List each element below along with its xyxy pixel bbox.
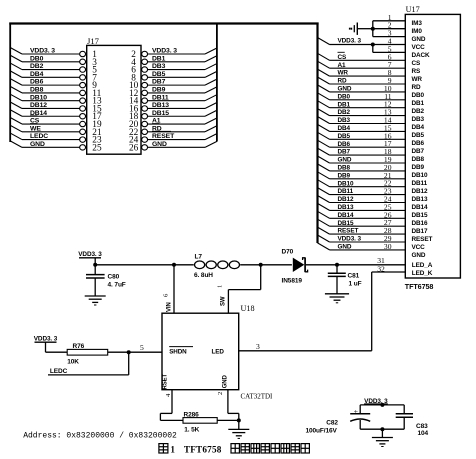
- junction: U18 VIN node: [172, 263, 176, 267]
- svg-text:VCC: VCC: [412, 244, 426, 251]
- svg-text:DB3: DB3: [412, 116, 425, 123]
- wire + power VDD3.3 (U17 pins 4-5): [318, 38, 406, 53]
- wire + net label DB4 (U17 pin 15): [318, 124, 406, 132]
- svg-text:IM0: IM0: [412, 28, 423, 35]
- svg-text:RESET: RESET: [152, 133, 175, 140]
- svg-text:R286: R286: [184, 412, 200, 419]
- svg-text:2: 2: [217, 392, 224, 395]
- svg-text:32: 32: [377, 264, 385, 273]
- svg-text:Address: 0x83200000 / 0x832000: Address: 0x83200000 / 0x83200002: [23, 432, 177, 441]
- svg-text:VDD3. 3: VDD3. 3: [78, 251, 102, 258]
- wire + net label DB0 (J17 pin 3): [10, 55, 85, 64]
- svg-text:DB6: DB6: [338, 141, 351, 148]
- power VDD3.3 (shutdown pull-up): [34, 335, 58, 352]
- svg-text:GND: GND: [338, 244, 352, 251]
- wire + net label DB9 (J17 pin 12): [142, 87, 217, 96]
- svg-text:DB2: DB2: [338, 109, 351, 116]
- wire: U17 pin 32 (LED_K) to U18 LED pin: [239, 264, 406, 350]
- wire + net label RD (J17 pin 22): [142, 124, 217, 135]
- svg-text:DB6: DB6: [412, 140, 425, 147]
- svg-text:D70: D70: [282, 249, 294, 256]
- junction: SHDN node: [127, 350, 131, 354]
- wire + net label RESET (U17 pin 28): [318, 226, 406, 235]
- wire: L7 to D70: [240, 264, 292, 266]
- svg-text:DB2: DB2: [30, 63, 44, 70]
- svg-text:VDD3. 3: VDD3. 3: [34, 335, 58, 342]
- svg-text:DB0: DB0: [412, 92, 425, 99]
- junction: U17 pin 2 node: [371, 27, 375, 31]
- wire + net label GND (U17 pin 10): [318, 85, 406, 93]
- svg-text:TFT6758: TFT6758: [405, 282, 434, 291]
- svg-text:C81: C81: [348, 273, 360, 280]
- svg-text:DB8: DB8: [30, 87, 44, 94]
- svg-text:1: 1: [170, 444, 175, 454]
- wire + net label DB11 (J17 pin 14): [142, 94, 217, 103]
- svg-text:GND: GND: [30, 141, 45, 148]
- svg-text:DB16: DB16: [412, 220, 428, 227]
- capacitor C80 4.7uF: [86, 265, 126, 296]
- wire: U17 pins 1-3 bracket: [358, 21, 405, 37]
- wire + net label RD (U17 pin 9): [318, 76, 406, 85]
- svg-text:DB1: DB1: [152, 55, 166, 62]
- svg-text:R76: R76: [73, 343, 85, 350]
- svg-text:3: 3: [256, 342, 260, 351]
- svg-text:DB3: DB3: [152, 63, 166, 70]
- svg-text:VDD3. 3: VDD3. 3: [338, 38, 362, 45]
- svg-text:DB1: DB1: [412, 100, 425, 107]
- ground (U18/R286): [228, 420, 249, 438]
- wire + net label WR (U17 pin 8): [318, 68, 406, 77]
- ground (C80): [85, 296, 106, 305]
- caption: figure 1 TFT6758 LCD module application circuit: [159, 444, 310, 455]
- svg-text:DB6: DB6: [30, 79, 44, 86]
- svg-text:5: 5: [140, 343, 144, 352]
- svg-text:DB12: DB12: [30, 102, 47, 109]
- junction: U17 pin 4 node: [371, 43, 375, 47]
- wire + net label DB15 (J17 pin 18): [142, 110, 217, 119]
- junction: C81 node: [335, 263, 339, 267]
- svg-text:DB4: DB4: [30, 71, 44, 78]
- net label LEDC wire: [48, 352, 129, 375]
- connector J17 body: [87, 36, 141, 154]
- junction: C80 node: [93, 263, 97, 267]
- wire + net label VDD3.3 (J17 pin 2): [142, 48, 217, 57]
- svg-text:DB15: DB15: [152, 110, 169, 117]
- wire: VDD3.3 to L7: [95, 264, 194, 266]
- svg-text:DB17: DB17: [412, 228, 428, 235]
- wire + net label DB2 (J17 pin 5): [10, 63, 85, 72]
- svg-text:1: 1: [217, 285, 224, 288]
- wire + net label GND (J17 pin 26): [142, 141, 217, 150]
- wire: left vertical bus: [9, 23, 11, 143]
- svg-text:DB12: DB12: [338, 196, 354, 203]
- svg-text:26: 26: [129, 143, 139, 153]
- svg-text:VDD3. 3: VDD3. 3: [338, 236, 362, 243]
- svg-text:CAT32TDI: CAT32TDI: [241, 393, 274, 401]
- wire: C82/C83 bottom rail: [360, 428, 404, 430]
- svg-text:DB5: DB5: [338, 133, 351, 140]
- capacitor C83 104: [396, 405, 429, 437]
- svg-text:LED_K: LED_K: [412, 270, 433, 277]
- svg-text:6: 6: [163, 293, 170, 297]
- junction: bottom rail ground node: [380, 427, 384, 431]
- svg-text:IN5819: IN5819: [282, 278, 303, 285]
- wire + net label DB8 (J17 pin 11): [10, 86, 85, 95]
- wire + net label DB13 (U17 pin 25): [318, 203, 406, 211]
- ground (C81): [325, 294, 349, 303]
- svg-text:4. 7uF: 4. 7uF: [108, 282, 126, 289]
- svg-text:GND: GND: [338, 157, 352, 164]
- svg-text:25: 25: [92, 143, 102, 153]
- svg-text:DB10: DB10: [30, 94, 47, 101]
- svg-text:LEDC: LEDC: [30, 133, 48, 140]
- svg-text:U17: U17: [406, 5, 420, 14]
- svg-text:GND: GND: [223, 374, 229, 388]
- junction: U18 SW node: [259, 263, 263, 267]
- IC U17 body (TFT6758 module): [405, 5, 461, 291]
- svg-text:DB11: DB11: [338, 188, 354, 195]
- wire + net label GND (U17 pin 19): [318, 156, 406, 164]
- svg-text:DB12: DB12: [412, 188, 428, 195]
- svg-text:DB14: DB14: [338, 212, 354, 219]
- svg-text:RSET: RSET: [163, 373, 169, 389]
- svg-text:DB7: DB7: [152, 79, 166, 86]
- svg-text:RD: RD: [338, 78, 348, 85]
- svg-text:100uF/16V: 100uF/16V: [306, 428, 338, 435]
- svg-text:1. 5K: 1. 5K: [184, 427, 199, 434]
- wire + net label GND (U17 pin 30): [318, 243, 406, 251]
- svg-text:DB4: DB4: [338, 125, 351, 132]
- ground (C82/C83): [372, 429, 393, 446]
- wire + net label DB5 (J17 pin 8): [142, 71, 217, 80]
- svg-text:DB11: DB11: [412, 180, 428, 187]
- svg-text:GND: GND: [152, 141, 167, 148]
- svg-text:DB2: DB2: [412, 108, 425, 115]
- wire: J17 right-side vertical bus: [216, 23, 218, 142]
- power VDD3.3 (backlight supply): [78, 251, 102, 265]
- svg-text:RESET: RESET: [412, 236, 433, 243]
- svg-text:DACK: DACK: [412, 52, 431, 59]
- wire + net label VDD3.3 (U17 pin 29): [318, 235, 406, 243]
- wire: U17 left vertical bus: [316, 23, 318, 244]
- svg-text:RESET: RESET: [338, 228, 359, 235]
- svg-text:GND: GND: [412, 36, 426, 43]
- svg-text:VDD3. 3: VDD3. 3: [30, 48, 55, 55]
- diode D70 IN5819: [282, 249, 308, 285]
- junction: VDD3.3 top rail node: [380, 403, 384, 407]
- svg-text:DB7: DB7: [338, 149, 351, 156]
- wire + net label DB9 (U17 pin 21): [318, 172, 406, 180]
- U17 pin numbers 1-30: [384, 13, 392, 251]
- ground (U17 pins 1-3, rotated): [349, 23, 357, 35]
- svg-text:WR: WR: [412, 76, 423, 83]
- svg-text:VDD3. 3: VDD3. 3: [152, 48, 177, 55]
- svg-text:DB7: DB7: [412, 148, 425, 155]
- power VDD3.3 (panel supply decoupling): [360, 398, 404, 405]
- wire + net label GND (J17 pin 25): [10, 141, 85, 150]
- U17 internal pin names: [412, 20, 433, 277]
- svg-text:10K: 10K: [67, 359, 79, 366]
- U18 internal labels SHDN / LED: [163, 347, 229, 390]
- svg-text:DB9: DB9: [412, 164, 425, 171]
- wire + net label DB13 (J17 pin 16): [142, 102, 217, 111]
- resistor R286 1.5K: [183, 412, 239, 434]
- wire + net label LEDC (J17 pin 23): [10, 133, 85, 142]
- svg-text:DB14: DB14: [412, 204, 428, 211]
- svg-text:104: 104: [418, 430, 429, 437]
- svg-text:DB15: DB15: [412, 212, 428, 219]
- svg-text:LED: LED: [212, 349, 225, 356]
- svg-text:WE: WE: [30, 125, 41, 132]
- svg-text:6. 8uH: 6. 8uH: [194, 272, 213, 279]
- wire + net label DB6 (U17 pin 17): [318, 140, 406, 148]
- svg-text:GND: GND: [412, 252, 426, 259]
- svg-text:DB1: DB1: [338, 101, 351, 108]
- svg-text:DB3: DB3: [338, 117, 351, 124]
- wire + net label CS (U17 pin 6): [318, 52, 406, 61]
- svg-text:1 uF: 1 uF: [349, 281, 362, 288]
- wire + net label DB12 (U17 pin 24): [318, 196, 406, 204]
- svg-text:DB9: DB9: [152, 87, 166, 94]
- wire + net label VDD3.3 (J17 pin 1): [10, 48, 85, 57]
- wire + net label DB14 (U17 pin 26): [318, 211, 406, 219]
- svg-text:4: 4: [165, 393, 172, 397]
- wire + net label DB11 (U17 pin 23): [318, 188, 406, 196]
- svg-text:VIN: VIN: [167, 302, 173, 312]
- wire + net label WE (J17 pin 21): [10, 124, 85, 135]
- svg-text:CS: CS: [338, 54, 348, 61]
- svg-text:DB5: DB5: [152, 71, 166, 78]
- wire + net label DB1 (J17 pin 4): [142, 55, 217, 64]
- svg-text:SW: SW: [221, 296, 227, 306]
- svg-text:DB8: DB8: [338, 165, 351, 172]
- svg-text:U18: U18: [241, 304, 255, 313]
- IC U18 CAT32TDI body: [162, 304, 273, 401]
- wire: U18 VIN pin 6: [163, 265, 175, 313]
- wire + net label DB4 (J17 pin 7): [10, 71, 85, 80]
- resistor R76 10K: [46, 343, 163, 366]
- capacitor C81 1uF: [328, 265, 362, 294]
- svg-text:TFT6758: TFT6758: [184, 444, 222, 454]
- wire + net label DB2 (U17 pin 13): [318, 109, 406, 117]
- wire: U18 SW pin 1: [217, 265, 261, 313]
- svg-text:J17: J17: [87, 36, 100, 46]
- U17 pin number 31: [377, 256, 385, 265]
- J17 pin numbers: [92, 50, 138, 153]
- svg-text:DB9: DB9: [338, 172, 351, 179]
- svg-text:CS: CS: [412, 60, 422, 67]
- wire + net label DB12 (J17 pin 15): [10, 102, 85, 111]
- svg-text:DB13: DB13: [338, 204, 354, 211]
- svg-text:SHDN: SHDN: [169, 348, 187, 355]
- svg-text:DB8: DB8: [412, 156, 425, 163]
- wire + net label DB3 (J17 pin 6): [142, 63, 217, 72]
- svg-text:DB13: DB13: [152, 102, 169, 109]
- wire + net label DB1 (U17 pin 12): [318, 101, 406, 109]
- svg-text:C80: C80: [108, 274, 120, 281]
- inductor L7 6.8uH: [194, 254, 239, 279]
- note: address mapping: [23, 432, 177, 441]
- svg-text:LED_A: LED_A: [412, 262, 433, 269]
- svg-text:DB0: DB0: [30, 55, 44, 62]
- svg-text:DB13: DB13: [412, 196, 428, 203]
- wire + net label A1 (U17 pin 7): [318, 61, 406, 69]
- svg-text:GND: GND: [338, 86, 352, 93]
- svg-text:VCC: VCC: [412, 44, 426, 51]
- wire + net label CS (J17 pin 19): [10, 116, 85, 127]
- svg-text:DB10: DB10: [412, 172, 428, 179]
- wire: D70 to U17 pin 31 (LED_A): [306, 264, 405, 266]
- wire + net label DB14 (J17 pin 17): [10, 110, 85, 119]
- wire + net label DB8 (U17 pin 20): [318, 164, 406, 172]
- junction: R286/ground node: [237, 418, 241, 422]
- capacitor C82 100uF/16V (electrolytic): [306, 405, 371, 435]
- wire + net label DB7 (U17 pin 18): [318, 148, 406, 156]
- svg-text:DB4: DB4: [412, 124, 425, 131]
- svg-text:C82: C82: [326, 419, 338, 426]
- svg-text:RS: RS: [412, 68, 422, 75]
- svg-text:DB0: DB0: [338, 93, 351, 100]
- svg-text:IM3: IM3: [412, 20, 423, 27]
- wire + net label DB0 (U17 pin 11): [318, 93, 406, 101]
- svg-text:RD: RD: [412, 84, 422, 91]
- wire + net label DB3 (U17 pin 14): [318, 117, 406, 125]
- svg-text:DB10: DB10: [338, 180, 354, 187]
- wire + net label DB5 (U17 pin 16): [318, 132, 406, 140]
- svg-text:L7: L7: [195, 254, 203, 261]
- wire + net label A1 (J17 pin 20): [142, 118, 217, 127]
- svg-text:C83: C83: [416, 423, 428, 430]
- wire + net label DB10 (J17 pin 13): [10, 94, 85, 103]
- svg-text:+: +: [354, 407, 359, 416]
- wire: top bus rail: [9, 22, 318, 24]
- wire + net label DB6 (J17 pin 9): [10, 79, 85, 88]
- wire + net label DB15 (U17 pin 27): [318, 219, 406, 227]
- wire + net label DB7 (J17 pin 10): [142, 79, 217, 88]
- wire + net label DB10 (U17 pin 22): [318, 180, 406, 188]
- wire: U18 RSET pin 4: [160, 390, 183, 421]
- svg-text:DB11: DB11: [152, 94, 169, 101]
- wire + net label RESET (J17 pin 24): [142, 131, 217, 142]
- svg-text:LEDC: LEDC: [50, 368, 68, 375]
- svg-text:DB5: DB5: [412, 132, 425, 139]
- wire: U18 GND pin 2: [217, 390, 239, 421]
